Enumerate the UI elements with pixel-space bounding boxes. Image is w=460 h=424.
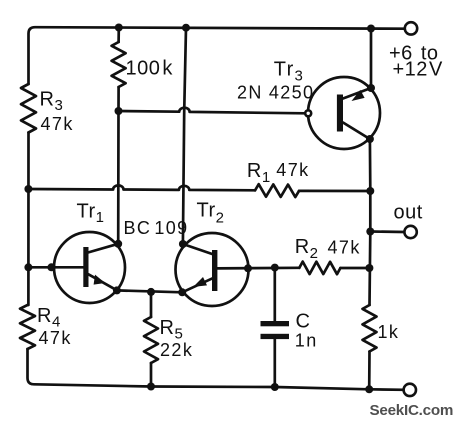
junction Tr2 emitter at circle: [178, 288, 186, 296]
junction base row / capacitor C: [271, 264, 279, 272]
resistor R5: [150, 292, 153, 317]
resistor 100k: [117, 28, 120, 43]
svg-text:1n: 1n: [295, 331, 318, 351]
wire left rail R3 to R4: [27, 133, 30, 306]
junction rail D / R1 row: [366, 187, 374, 195]
capacitor C wire from bottom plate to bottom rail: [273, 339, 276, 387]
transistor Tr3 base bar: [337, 95, 343, 132]
svg-text:SeekIC.com: SeekIC.com: [370, 402, 454, 419]
wire rail C: top rail down to Tr2 collector: [183, 28, 186, 244]
capacitor C top plate: [261, 321, 290, 326]
junction bottom rail / capacitor C: [271, 383, 279, 391]
junction Tr1 base at circle: [47, 263, 55, 271]
transistor Tr1 emitter arrow: [94, 275, 106, 285]
wire Tr2 base wire to R2: [217, 266, 299, 269]
junction Tr3 emitter at circle: [367, 84, 375, 92]
terminal common (bottom): [404, 384, 416, 396]
svg-text:47k: 47k: [41, 114, 74, 134]
transistor Tr2 emitter lead: [182, 278, 212, 292]
junction Tr3 collector at circle: [366, 135, 374, 143]
junction bottom rail / 1k: [365, 385, 373, 393]
resistor R3: [21, 84, 36, 133]
junction Tr1 emitter at circle: [113, 286, 121, 294]
wire top supply rail with left rail corner: [29, 27, 405, 84]
svg-text:out: out: [394, 202, 423, 224]
junction emitter row / R5: [147, 288, 155, 296]
wire rail B: 100k junction down to Tr1 collector: [117, 111, 120, 244]
resistor R1: [255, 184, 299, 197]
junction Tr2 base at circle: [244, 264, 252, 272]
transistor Tr1 emitter lead: [88, 274, 117, 290]
transistor Tr3 collector lead: [343, 123, 370, 140]
resistor R4: [20, 305, 35, 349]
svg-text:22k: 22k: [160, 340, 193, 360]
transistor Tr1 circle: [54, 232, 125, 303]
svg-text:R5: R5: [160, 317, 184, 343]
transistor Tr3 emitter arrow (PNP, points toward base): [352, 90, 365, 101]
svg-text:Tr2: Tr2: [197, 200, 225, 227]
junction top rail / 100k: [115, 24, 123, 32]
terminal out: [404, 226, 416, 238]
svg-text:100k: 100k: [126, 58, 174, 80]
svg-text:Tr1: Tr1: [77, 201, 105, 227]
svg-text:R2: R2: [295, 236, 319, 262]
svg-text:47k: 47k: [328, 237, 361, 257]
svg-text:47k: 47k: [39, 328, 72, 348]
transistor Tr3 emitter lead: [343, 88, 371, 99]
transistor Tr2 emitter arrow: [193, 277, 207, 287]
terminal +V supply: [405, 22, 417, 34]
capacitor C wire from base row down to top plate: [273, 268, 276, 321]
transistor Tr1 collector lead: [88, 244, 118, 253]
wire out branch: [370, 230, 404, 233]
transistor Tr1 base bar: [83, 247, 88, 287]
junction left rail / R1 row: [24, 185, 32, 193]
svg-text:BC109: BC109: [124, 218, 189, 238]
junction top rail / rail C: [182, 24, 190, 32]
svg-text:+12V: +12V: [393, 59, 443, 81]
wire R1 row from left rail, hops over rails B and C: [28, 185, 255, 190]
svg-text:Tr3: Tr3: [274, 59, 304, 85]
svg-text:C: C: [296, 311, 311, 333]
junction rail D / R2: [365, 264, 373, 272]
svg-text:47k: 47k: [276, 160, 309, 180]
wire Tr1 base wire from left rail: [28, 266, 83, 269]
resistor R2: [299, 262, 340, 275]
resistor 1k: [363, 305, 377, 352]
wire Tr3 base wire from 100k junction, hops over rail C: [119, 108, 306, 114]
junction rail D / out branch: [366, 228, 374, 236]
junction Tr1 collector at circle: [114, 240, 122, 248]
junction top rail / rail D: [367, 25, 375, 33]
svg-text:R3: R3: [40, 88, 64, 114]
junction bottom rail / R5: [147, 383, 155, 391]
svg-text:R1: R1: [247, 160, 271, 186]
junction 100k bottom / Tr3 base wire: [115, 107, 123, 115]
transistor Tr3 circle: [308, 77, 380, 149]
wire rail D: supply dot down to Tr3 emitter: [370, 29, 373, 89]
transistor Tr3 base entry open circle: [305, 110, 311, 116]
transistor Tr2 collector lead: [183, 244, 213, 254]
wire left rail R4 to bottom corner and bottom rail: [28, 349, 404, 390]
wire rail D: Tr3 collector down through R1 and out junctions to 1k: [368, 139, 371, 305]
transistor Tr2 circle: [176, 233, 249, 306]
capacitor C bottom plate: [261, 334, 290, 339]
junction Tr2 collector at circle: [179, 240, 187, 248]
junction left rail / Tr1 base: [24, 263, 32, 271]
svg-text:R4: R4: [37, 305, 61, 331]
wire emitter row Tr1 to Tr2: [117, 290, 182, 292]
svg-text:2N4250: 2N4250: [237, 83, 314, 103]
transistor Tr2 base bar: [212, 250, 217, 291]
svg-text:1k: 1k: [378, 322, 400, 342]
